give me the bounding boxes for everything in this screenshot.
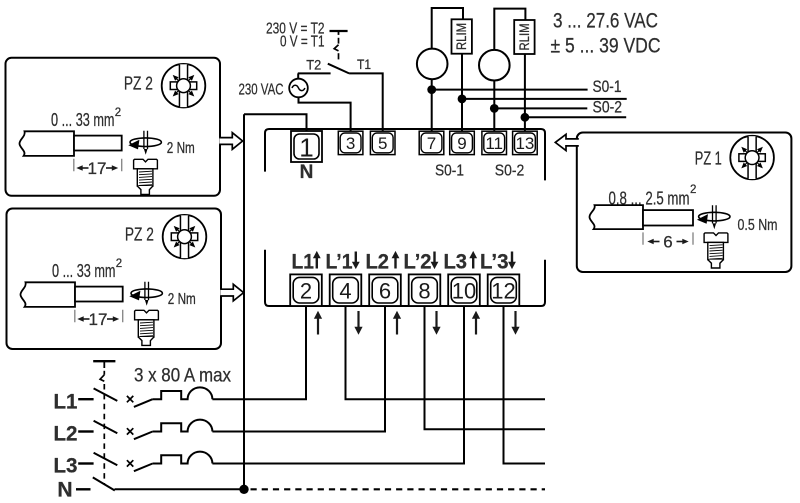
label L3 up	[444, 250, 478, 273]
main switch link bar	[93, 361, 115, 368]
svg-text:L2: L2	[54, 422, 78, 445]
svg-text:PZ 2: PZ 2	[125, 225, 154, 245]
PZ2 upper: label 0 ... 33 mm2	[51, 107, 121, 130]
info box PZ1	[577, 133, 792, 273]
resistor RLIM 2	[514, 20, 534, 54]
PZ1: screwdriver torque icon	[697, 205, 730, 229]
terminal 10	[448, 274, 480, 306]
svg-text:RLIM: RLIM	[454, 23, 469, 50]
main switch blade L3	[94, 453, 118, 466]
S0-1 wire b	[462, 98, 627, 100]
wire: neutral link to terminal 1	[244, 114, 307, 131]
label L'1 down	[326, 250, 360, 273]
info box PZ2 lower	[7, 209, 222, 350]
tariff switch blade	[328, 64, 349, 74]
junction dot RLIM1/S0-1	[458, 95, 467, 104]
PZ1: strip length 6 dimension	[643, 232, 693, 251]
label L'3 down	[480, 250, 516, 273]
wire: T2 contact line	[298, 72, 331, 74]
S0 receiver circle 1	[417, 49, 448, 80]
main switch blade L2	[94, 421, 118, 434]
svg-text:L3: L3	[444, 250, 468, 273]
svg-text:0.5 Nm: 0.5 Nm	[738, 217, 778, 234]
PZ2 lower: strip length 17 dimension	[75, 310, 123, 329]
wire L3 to terminal 10	[212, 306, 464, 464]
svg-text:L’1: L’1	[326, 250, 353, 273]
svg-text:6: 6	[379, 279, 391, 304]
svg-text:9: 9	[457, 134, 466, 153]
arrow PZ2 lower to meter	[220, 284, 243, 301]
wire loop S0-1 top	[432, 8, 463, 49]
svg-text:7: 7	[427, 134, 436, 153]
wire: AC source to terminal 3	[299, 97, 351, 131]
terminal 9	[450, 131, 475, 154]
meter outline lower part	[265, 250, 545, 306]
svg-text:6: 6	[663, 232, 672, 251]
arrow up under terminal 6	[393, 311, 401, 335]
svg-text:L1: L1	[54, 390, 78, 413]
arrow PZ1 to meter	[555, 134, 579, 150]
wire loop S0-2 top	[494, 9, 525, 50]
terminal 6	[369, 274, 401, 306]
terminal 5	[370, 131, 395, 154]
AC source circle 230 VAC	[289, 73, 308, 97]
wire L1 to terminal 2	[212, 306, 306, 399]
wire: RLIM2 to terminal 13	[524, 54, 526, 131]
PZ1: Pozidriv bit icon	[730, 136, 774, 180]
wire L'1 output from terminal 4	[346, 306, 546, 399]
tariff selector dashed link with zigzag	[334, 38, 338, 60]
wire L'3 output from terminal 12	[504, 306, 546, 464]
wire L'2 output from terminal 8	[425, 306, 546, 429]
S0-1 wire a	[432, 89, 588, 91]
breaker L1	[127, 387, 212, 407]
terminal 2	[290, 274, 322, 306]
label L1 up	[292, 250, 321, 273]
PZ2 lower: terminal screw icon	[135, 310, 159, 345]
svg-text:5: 5	[378, 134, 387, 153]
svg-text:2: 2	[300, 279, 312, 304]
svg-text:4: 4	[339, 279, 351, 304]
arrow up under terminal 10	[472, 311, 480, 335]
svg-text:T1: T1	[357, 57, 371, 72]
svg-text:13: 13	[515, 134, 534, 153]
PZ2 upper: terminal screw icon	[134, 159, 158, 194]
terminal 4	[330, 274, 362, 306]
PZ2 upper: cable	[19, 131, 121, 156]
svg-text:N: N	[57, 479, 72, 502]
breaker L2	[127, 420, 212, 440]
arrow down under terminal 8	[432, 311, 440, 335]
svg-text:T2: T2	[306, 57, 321, 72]
terminal 7	[419, 131, 444, 154]
svg-text:10: 10	[452, 279, 476, 304]
wire: neutral bus vertical drop	[243, 114, 245, 489]
PZ2 upper: strip length 17 dimension	[74, 159, 122, 178]
terminal 13	[513, 131, 538, 154]
svg-text:L2: L2	[366, 250, 390, 273]
svg-text:S0-2: S0-2	[495, 163, 525, 180]
terminal 3	[338, 131, 363, 154]
main switch blade L1	[94, 388, 118, 401]
svg-text:2 Nm: 2 Nm	[167, 140, 195, 157]
svg-text:L’3: L’3	[480, 250, 509, 273]
info box PZ2 upper	[6, 58, 221, 196]
main switch blade N	[93, 477, 115, 490]
junction dot N bus	[239, 485, 248, 494]
L2 label stub	[78, 430, 93, 432]
resistor RLIM 1	[452, 19, 472, 53]
svg-text:0 ... 33 mm: 0 ... 33 mm	[51, 110, 115, 130]
S0 receiver circle 2	[479, 50, 510, 81]
svg-text:L’2: L’2	[404, 250, 432, 273]
PZ2 lower: Pozidriv bit icon	[163, 215, 207, 259]
svg-text:± 5 ... 39 VDC: ± 5 ... 39 VDC	[551, 34, 661, 57]
svg-text:PZ 1: PZ 1	[695, 149, 722, 169]
PZ2 upper: Pozidriv bit icon	[162, 64, 206, 108]
svg-text:2 Nm: 2 Nm	[168, 291, 196, 308]
terminal 8	[409, 274, 441, 306]
meter outline upper part	[265, 129, 545, 180]
svg-text:0 V = T1: 0 V = T1	[280, 34, 325, 51]
svg-text:PZ 2: PZ 2	[124, 74, 153, 94]
svg-text:17: 17	[89, 310, 108, 329]
arrow down under terminal 4	[354, 311, 362, 335]
junction dot circle1/S0-1	[427, 85, 436, 94]
svg-text:1: 1	[299, 133, 313, 163]
junction dot circle2/S0-2	[490, 104, 499, 113]
label L2 up	[366, 250, 400, 273]
arrow up under terminal 2	[314, 311, 322, 335]
svg-text:S0-1: S0-1	[435, 163, 464, 180]
svg-text:2: 2	[690, 184, 696, 196]
PZ2 lower: label 0 ... 33 mm2	[52, 258, 122, 281]
N dashed continuation	[251, 488, 546, 490]
svg-text:11: 11	[485, 134, 503, 153]
svg-text:L3: L3	[54, 454, 78, 477]
wire: circle1 to terminal 7	[431, 79, 433, 132]
wire: RLIM1 to terminal 9	[461, 54, 463, 132]
PZ1: cable	[589, 205, 693, 229]
S0-2 wire a	[494, 107, 587, 109]
wire N to junction	[115, 488, 245, 490]
L1 label stub	[78, 398, 93, 400]
breaker L3	[127, 452, 212, 472]
PZ2 lower: cable	[20, 282, 122, 307]
terminal 11	[482, 131, 507, 154]
svg-text:3 ... 27.6 VAC: 3 ... 27.6 VAC	[553, 9, 658, 32]
L3 label stub	[78, 462, 93, 464]
N label stub	[76, 488, 91, 490]
junction dot RLIM2/S0-2	[521, 113, 530, 122]
svg-text:RLIM: RLIM	[517, 24, 532, 51]
terminal 1 (N)	[291, 131, 322, 163]
PZ1: terminal screw icon	[704, 233, 728, 268]
svg-text:230 VAC: 230 VAC	[239, 82, 284, 99]
terminal 12	[488, 274, 520, 306]
S0-2 wire b	[525, 116, 626, 118]
label L'2 down	[404, 250, 439, 273]
svg-text:N: N	[300, 162, 314, 183]
main switch dashed link with zigzag	[100, 371, 104, 484]
wire: T1 line to terminal 5	[349, 73, 383, 131]
arrow PZ2 upper to meter	[219, 133, 242, 150]
wire: circle2 to terminal 11	[493, 80, 495, 131]
svg-text:S0-2: S0-2	[593, 99, 623, 117]
svg-text:8: 8	[418, 279, 430, 304]
wire L2 to terminal 6	[212, 306, 385, 432]
tariff selector bar	[330, 31, 348, 35]
svg-text:2: 2	[115, 107, 121, 119]
PZ1: label 0.8 ... 2.5 mm2	[609, 184, 697, 208]
PZ2 lower: screwdriver torque icon	[129, 282, 162, 306]
svg-text:L1: L1	[292, 250, 315, 273]
svg-text:0 ... 33 mm: 0 ... 33 mm	[52, 261, 116, 281]
svg-text:17: 17	[88, 159, 107, 178]
svg-text:12: 12	[491, 279, 515, 304]
PZ2 upper: screwdriver torque icon	[128, 131, 161, 155]
arrow down under terminal 12	[511, 311, 519, 335]
svg-text:3: 3	[346, 134, 355, 153]
svg-text:3 x 80 A max: 3 x 80 A max	[134, 365, 231, 386]
svg-text:2: 2	[116, 258, 122, 270]
svg-text:S0-1: S0-1	[593, 78, 622, 96]
